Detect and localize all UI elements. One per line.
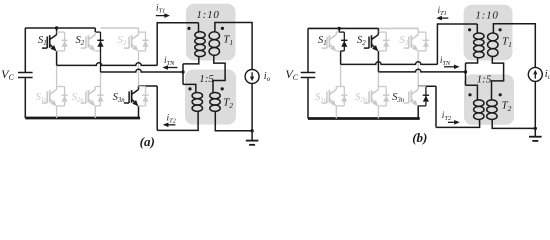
- top rail gray segment: [378, 27, 418, 29]
- node: top rail junction leg1: [338, 27, 341, 30]
- wire S2n input lead gray: [100, 72, 102, 87]
- transformer T1 shaded region: [186, 4, 236, 61]
- ground symbol: [246, 140, 259, 142]
- wire S3n branch: [138, 86, 140, 118]
- svg-text:S1n: S1n: [36, 92, 49, 104]
- transistor S3 IGBT gray: [124, 35, 139, 51]
- capacitor VC branch wire bottom: [307, 78, 309, 119]
- diode D2n gray: [385, 87, 387, 106]
- switch S1 bottom stub: [341, 50, 345, 52]
- diode D3n (conducting): [425, 86, 427, 106]
- switch S1n bottom stub: [57, 105, 65, 107]
- svg-text:(b): (b): [412, 130, 427, 145]
- wire S1n input lead gray: [56, 65, 58, 86]
- wire T1 secondary top lead to current source: [493, 24, 535, 68]
- wire leg1-midpoint to T1 primary (hops legs 2,3): [57, 63, 158, 66]
- svg-text:S1: S1: [318, 35, 327, 47]
- switch S1 top stub: [339, 31, 344, 33]
- wire T1 secondary bottom to T2 secondary top (step): [213, 55, 225, 92]
- diode D3n gray: [145, 87, 147, 106]
- wire current source bottom: [251, 84, 253, 141]
- switch S1n top stub: [57, 86, 65, 88]
- svg-text:iT1: iT1: [438, 6, 447, 17]
- wire leg2-midpoint to node N (hops leg 3): [101, 69, 184, 72]
- transformer T1 secondary winding: [488, 33, 498, 57]
- node ground junction dot: [250, 129, 253, 132]
- svg-text:S3: S3: [399, 35, 408, 47]
- arrow iTN: [166, 67, 178, 69]
- wire node N to T2 primary top: [466, 85, 478, 100]
- wire T2 primary bottom lead: [436, 119, 480, 127]
- transistor S3n IGBT (conducting): [124, 90, 139, 106]
- switch S3 bottom stub: [139, 50, 146, 52]
- diode D1 (antiparallel of S1): [64, 32, 66, 51]
- wire S1 output lead: [340, 51, 342, 65]
- wire S1 IGBT branch gray: [335, 32, 337, 51]
- diode D3 gray: [425, 32, 427, 51]
- switch S3 bottom stub: [418, 50, 426, 52]
- transformer T2 primary winding: [192, 92, 202, 111]
- capacitor VC branch wire bottom: [24, 78, 26, 119]
- transistor S2n IGBT gray: [364, 90, 379, 106]
- wire S1n branch grays: [56, 87, 58, 107]
- transistor S1n IGBT gray: [322, 90, 337, 106]
- switch S1n bottom stub: [336, 105, 344, 107]
- wire S2 branch: [377, 32, 379, 72]
- bottom rail (negative bus): [25, 117, 140, 120]
- switch S3 top stub: [139, 31, 146, 33]
- wire S3n rail connection: [417, 106, 419, 119]
- wire leg1 drop from rail: [338, 28, 340, 32]
- ground symbol: [529, 136, 542, 138]
- wire leg1 branch (S1 collector-emitter path): [56, 28, 58, 65]
- polarity dot T1 primary: [187, 27, 190, 30]
- wire leg3 midpoint gray lead: [138, 51, 140, 86]
- switch S2 bottom stub: [95, 50, 100, 52]
- switch S3n top stub: [139, 86, 146, 88]
- wire T1 primary top lead: [198, 23, 200, 32]
- switch S1 top stub: [57, 31, 65, 33]
- diode D1n gray: [64, 87, 66, 106]
- diode D2 (antiparallel of S2, conducting): [100, 32, 102, 72]
- svg-text:S2: S2: [76, 35, 85, 47]
- svg-text:1:10: 1:10: [196, 9, 219, 21]
- arrow iT1: [440, 17, 449, 19]
- wire node N to T1 primary bottom: [466, 58, 478, 63]
- arrow iTN: [444, 66, 456, 68]
- switch S1 top stub gray part: [336, 31, 339, 33]
- arrow iT2: [448, 121, 457, 123]
- arrow iT2: [166, 124, 175, 126]
- wire T1 primary top lead: [476, 24, 478, 33]
- svg-text:iT2: iT2: [442, 111, 452, 122]
- switch S2 top stub: [378, 31, 386, 33]
- transformer T1 secondary winding: [209, 32, 219, 56]
- wire S3n collector node to riser: [418, 85, 436, 87]
- svg-text:VC: VC: [285, 67, 298, 82]
- svg-text:1:10: 1:10: [475, 10, 498, 22]
- transistor S2 IGBT: [364, 35, 379, 51]
- transistor S2n IGBT gray: [81, 90, 96, 106]
- svg-text:io: io: [264, 71, 271, 83]
- circuit figure (b): [285, 5, 550, 145]
- svg-text:S3: S3: [117, 35, 126, 47]
- arrow iT1: [156, 15, 167, 17]
- current source io arrow: [534, 73, 536, 79]
- wire S2n branch grays: [94, 87, 96, 107]
- switch S3n top stub: [418, 86, 426, 88]
- wire S3n collector node to riser: [139, 85, 158, 87]
- circuit figure (a): [1, 4, 271, 149]
- transformer T2 shaded region: [464, 74, 514, 124]
- svg-text:S1: S1: [38, 35, 47, 47]
- svg-text:(a): (a): [140, 134, 155, 149]
- node N junction vertical: [465, 63, 467, 85]
- current source io arrow: [251, 72, 253, 78]
- svg-text:S3n: S3n: [113, 92, 126, 104]
- transformer T1 primary winding: [195, 32, 205, 57]
- node N junction dot: [464, 70, 467, 73]
- top rail (positive bus): [25, 27, 95, 29]
- wire S1n branch grays: [335, 87, 337, 107]
- wire leg3 gray drop from rail: [138, 28, 140, 32]
- polarity dot T1 primary: [468, 28, 471, 31]
- wire leg2 top connection: [94, 28, 96, 32]
- top rail (positive bus): [308, 27, 378, 29]
- current source io circle: [245, 70, 259, 84]
- capacitor VC branch wire top: [24, 28, 26, 73]
- wire riser to T1 primary top: [157, 23, 198, 66]
- wire T2 primary bottom lead: [157, 111, 198, 130]
- switch S2n bottom stub: [378, 105, 386, 107]
- transformer T1 shaded region: [464, 5, 513, 61]
- transformer T2 shaded region: [185, 70, 236, 125]
- wire S1n input lead gray: [340, 64, 342, 86]
- wire T2 secondary bottom lead to ground node: [492, 119, 535, 128]
- transistor S1 IGBT: [322, 35, 337, 51]
- transistor S2 IGBT: [81, 35, 96, 51]
- svg-text:S2n: S2n: [355, 92, 368, 104]
- capacitor VC branch wire top: [307, 28, 309, 72]
- wire T1 secondary top lead to current source: [215, 23, 252, 70]
- svg-text:S1n: S1n: [315, 92, 328, 104]
- wire riser T2-bottom to S3n node: [156, 86, 158, 130]
- node N junction vertical: [182, 64, 184, 85]
- wire leg3 midpoint gray lead: [417, 51, 419, 86]
- wire leg2-midpoint to node N (hops leg 3): [378, 69, 465, 72]
- transistor S1n IGBT gray: [42, 90, 57, 106]
- wire S3n branch gray: [417, 86, 419, 106]
- svg-text:VC: VC: [1, 67, 14, 82]
- switch S1 bottom stub: [57, 50, 65, 52]
- capacitor C (dc link): [301, 73, 316, 78]
- wire S2n branch grays: [377, 87, 379, 107]
- wire riser T2-bottom to S3n node: [435, 86, 437, 127]
- switch S3 top stub: [418, 31, 426, 33]
- switch S1n top stub: [336, 86, 344, 88]
- transformer T2 secondary winding: [487, 100, 497, 120]
- svg-text:io: io: [545, 69, 550, 81]
- polarity dot T1 secondary: [499, 28, 502, 31]
- polarity dot T2 secondary: [499, 93, 502, 96]
- polarity dot T2 primary: [468, 93, 471, 96]
- wire T1 secondary bottom to T2 secondary top (step): [492, 57, 504, 100]
- transformer T2 primary winding: [474, 100, 484, 120]
- node ground junction dot: [534, 127, 537, 130]
- wire S2n input lead gray: [377, 72, 379, 87]
- wire leg2 top connection: [377, 28, 379, 32]
- switch S2n bottom stub: [95, 105, 100, 107]
- svg-text:S3n: S3n: [392, 92, 405, 104]
- svg-text:S2: S2: [357, 35, 366, 47]
- diode D1n gray: [343, 87, 345, 106]
- svg-text:iTN: iTN: [164, 56, 175, 67]
- transformer T2 secondary winding: [210, 92, 220, 111]
- transistor S3n IGBT gray: [404, 90, 419, 106]
- transistor S1 IGBT: [42, 35, 57, 51]
- svg-text:iTN: iTN: [440, 56, 451, 67]
- diode D1 (antiparallel of S1): [343, 32, 345, 51]
- current source io circle: [528, 67, 542, 81]
- transistor S3 IGBT gray: [404, 35, 419, 51]
- switch S2n top stub: [378, 86, 386, 88]
- top rail gray segment: [101, 27, 139, 29]
- polarity dot T2 secondary: [221, 87, 224, 90]
- switch S3n bottom stub: [418, 105, 426, 107]
- switch S3n bottom stub: [139, 105, 146, 107]
- wire T2 secondary bottom lead to ground node: [215, 111, 252, 131]
- wire riser to T1 primary top: [437, 24, 477, 64]
- wire node N to T2 primary top: [183, 84, 196, 92]
- svg-text:1:5: 1:5: [477, 74, 492, 86]
- polarity dot T1 secondary: [221, 27, 224, 30]
- wire S2 IGBT branch gray: [94, 32, 96, 51]
- switch S2n top stub: [95, 86, 100, 88]
- transformer T1 primary winding: [474, 33, 484, 58]
- polarity dot T2 primary: [188, 87, 191, 90]
- diode D2 (antiparallel of S2): [385, 32, 387, 51]
- bottom rail (negative bus): [308, 117, 420, 120]
- node N junction dot: [181, 70, 184, 73]
- wire leg1-midpoint to T1 primary (hops legs 2,3): [341, 62, 438, 65]
- node: top rail junction leg1: [55, 26, 58, 29]
- switch S1 bottom stub gray part: [336, 50, 339, 52]
- diode D3 gray: [145, 32, 147, 51]
- capacitor C (dc link): [18, 73, 33, 78]
- wire leg3 gray drop from rail: [417, 28, 419, 32]
- svg-text:iT1: iT1: [156, 4, 165, 15]
- svg-text:iT2: iT2: [167, 113, 177, 124]
- wire current source bottom: [534, 81, 536, 136]
- wire S3 IGBT branch gray: [417, 32, 419, 51]
- svg-text:S2n: S2n: [72, 92, 85, 104]
- wire node N to T1 primary bottom: [183, 57, 199, 64]
- switch S2 bottom stub: [378, 50, 386, 52]
- wire S3 IGBT branch gray: [138, 32, 140, 51]
- svg-text:1:5: 1:5: [199, 73, 214, 85]
- diode D2n gray: [100, 87, 102, 106]
